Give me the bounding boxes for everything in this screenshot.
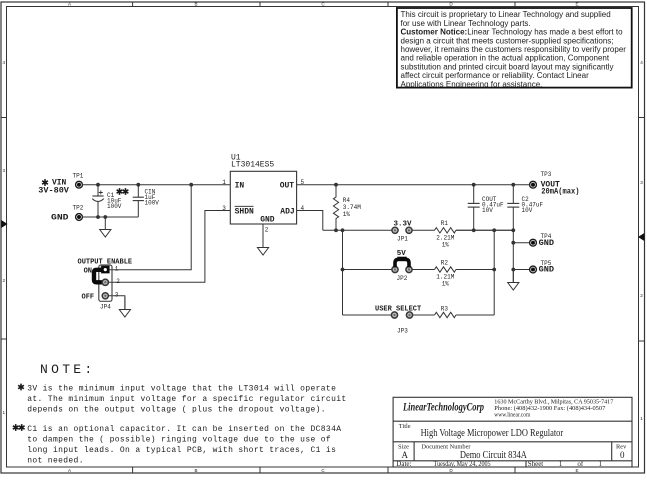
zone tick bottom BC	[259, 467, 261, 473]
svg-text:Customer Notice:Linear Technol: Customer Notice:Linear Technology has ma…	[401, 28, 624, 37]
zone tick bottom DE	[514, 467, 516, 473]
connector JP4	[99, 265, 121, 310]
svg-text:R2: R2	[441, 260, 449, 267]
svg-text:GND: GND	[539, 238, 555, 248]
wire JP2 row	[343, 269, 495, 271]
svg-text:Tuesday, May 24, 2005: Tuesday, May 24, 2005	[434, 460, 491, 468]
zone tick right 21	[639, 340, 645, 342]
svg-text:of: of	[577, 460, 584, 468]
svg-text:100V: 100V	[107, 203, 122, 210]
svg-text:R1: R1	[441, 220, 449, 227]
title block Size	[398, 443, 409, 460]
svg-text:3V is the minimum input voltag: 3V is the minimum input voltage that the…	[27, 384, 336, 393]
jumper shunt JP2	[395, 257, 409, 268]
svg-text:3.3V: 3.3V	[394, 221, 413, 229]
junction select branch	[341, 228, 345, 232]
node VIN label	[38, 178, 69, 196]
wire OUT rail	[297, 184, 530, 186]
svg-text:3V-80V: 3V-80V	[38, 185, 69, 195]
svg-text:1: 1	[640, 416, 643, 421]
zone tick right 43	[639, 117, 645, 119]
wire SHDN to JP4 pin2	[109, 211, 231, 283]
junction TP4	[511, 241, 515, 245]
junction C2 bottom	[511, 228, 515, 232]
star marker note2 double	[13, 424, 25, 431]
svg-text:TP3: TP3	[541, 171, 552, 178]
junction C1 bottom	[96, 215, 100, 219]
zone letters bottom	[68, 468, 579, 473]
svg-text:C1 is an optional capacitor. I: C1 is an optional capacitor. It can be i…	[27, 425, 341, 434]
junction C2 top	[511, 183, 515, 187]
svg-text:substitution and printed circu: substitution and printed circuit board l…	[401, 62, 614, 71]
svg-text:affect circuit performance or: affect circuit performance or reliabilit…	[401, 71, 590, 80]
svg-text:High Voltage Micropower LDO Re: High Voltage Micropower LDO Regulator	[421, 428, 564, 439]
wire JP4 pin1 to VIN rail	[110, 185, 192, 270]
svg-text:3.74M: 3.74M	[343, 204, 361, 211]
svg-text:JP1: JP1	[397, 236, 408, 243]
svg-text:TP1: TP1	[73, 173, 84, 180]
capacitor C1	[92, 185, 122, 217]
title block address	[494, 399, 614, 419]
svg-text:GND: GND	[260, 215, 275, 224]
svg-text:www.linear.com: www.linear.com	[494, 412, 530, 419]
svg-text:B: B	[194, 468, 197, 473]
svg-text:3: 3	[222, 205, 226, 212]
junction R4 bottom	[334, 228, 338, 232]
svg-text:not needed.: not needed.	[27, 456, 84, 465]
svg-text:3: 3	[3, 168, 6, 173]
resistor R1	[435, 220, 456, 248]
svg-text:OFF: OFF	[82, 293, 95, 301]
svg-text:2: 2	[116, 278, 120, 285]
test point TP5	[530, 260, 552, 273]
wire GND row right	[456, 229, 513, 231]
svg-text:JP2: JP2	[397, 275, 408, 282]
centre arrow right	[638, 233, 644, 241]
wire ADJ	[297, 211, 323, 231]
svg-text:Date:: Date:	[396, 460, 411, 468]
svg-text:and reliable operation in the: and reliable operation in the actual app…	[401, 54, 610, 63]
title block Title	[399, 423, 564, 439]
ground JP4	[119, 297, 130, 317]
wire TP5	[513, 269, 530, 271]
svg-text:IN: IN	[235, 182, 245, 191]
svg-text:LT3014ES5: LT3014ES5	[231, 161, 274, 170]
svg-text:TP2: TP2	[73, 205, 84, 212]
svg-text:ON: ON	[84, 267, 92, 275]
zone numbers right	[640, 60, 643, 421]
svg-text:GND: GND	[51, 212, 69, 222]
svg-text:R3: R3	[441, 306, 449, 313]
zone tick left 21	[1, 338, 7, 340]
svg-text:1: 1	[599, 460, 603, 468]
jumper shunt JP4	[94, 266, 109, 285]
svg-text:Applications Engineering for a: Applications Engineering for assistance.	[401, 80, 543, 89]
zone tick bottom AB	[132, 467, 134, 473]
star marker note1	[18, 384, 24, 391]
svg-text:at. The minimum input voltage: at. The minimum input voltage for a spec…	[27, 395, 346, 404]
capacitor COUT	[468, 185, 504, 231]
wire USER SELECT row	[343, 314, 495, 316]
svg-text:USER SELECT: USER SELECT	[375, 306, 421, 314]
svg-text:10V: 10V	[522, 207, 533, 214]
svg-text:C: C	[321, 468, 325, 473]
note paragraph 1	[27, 384, 346, 414]
svg-text:1: 1	[3, 410, 6, 415]
ground output	[508, 270, 519, 290]
svg-text:3: 3	[640, 180, 643, 185]
junction R4 top	[334, 183, 338, 187]
zone numbers left	[3, 60, 6, 415]
resistor R2	[435, 260, 456, 288]
svg-text:10V: 10V	[482, 207, 493, 214]
svg-text:2: 2	[640, 293, 643, 298]
junction return top	[492, 228, 496, 232]
title block Document Number	[421, 443, 527, 461]
zone tick left 43	[1, 117, 7, 119]
svg-text:Title: Title	[399, 423, 411, 430]
wire select branch vertical	[342, 230, 344, 315]
svg-text:however, it remains the custom: however, it remains the customers respon…	[401, 45, 627, 54]
svg-text:GND: GND	[539, 264, 555, 274]
svg-text:1%: 1%	[343, 211, 351, 218]
junction C1 top	[96, 183, 100, 187]
jumper JP3	[391, 312, 412, 335]
svg-text:1%: 1%	[442, 241, 450, 248]
svg-text:1: 1	[222, 179, 226, 186]
wire GND rail left	[82, 216, 138, 218]
resistor R3	[435, 306, 456, 318]
zone tick top CD	[387, 2, 389, 7]
ground input	[100, 217, 111, 237]
wire JP4 pin3 to ground	[109, 296, 125, 310]
wire VIN rail	[82, 184, 230, 186]
svg-text:B: B	[194, 2, 197, 7]
title block Date row	[396, 460, 602, 468]
svg-text:JP4: JP4	[100, 303, 111, 310]
svg-text:1: 1	[115, 266, 119, 273]
centre arrow left	[1, 220, 7, 228]
junction ON rail	[189, 183, 193, 187]
junction return JP2 row	[492, 268, 496, 272]
svg-text:design a circuit that meets cu: design a circuit that meets customer-sup…	[401, 36, 614, 45]
svg-text:A: A	[402, 450, 409, 460]
svg-text:ADJ: ADJ	[280, 208, 294, 217]
node VOUT label	[541, 179, 580, 196]
svg-text:NOTE:: NOTE:	[40, 362, 96, 377]
note paragraph 2	[27, 425, 341, 466]
svg-text:1%: 1%	[442, 280, 450, 287]
svg-text:E: E	[575, 468, 578, 473]
svg-text:This circuit is proprietary to: This circuit is proprietary to Linear Te…	[401, 10, 611, 19]
zone letters top	[68, 2, 579, 7]
star marker VIN	[42, 179, 48, 186]
svg-text:4: 4	[3, 60, 6, 65]
svg-text:E: E	[575, 2, 578, 7]
junction JP2 branch	[341, 268, 345, 272]
svg-text:20mA(max): 20mA(max)	[541, 187, 579, 197]
svg-text:long input leads. On a typical: long input leads. On a typical PCB, with…	[27, 446, 336, 455]
wire ADJ row	[323, 229, 514, 231]
junction COUT bottom	[472, 228, 476, 232]
svg-text:R4: R4	[343, 197, 351, 204]
zone tick top AB	[132, 2, 134, 7]
svg-text:Sheet: Sheet	[528, 460, 544, 468]
svg-text:1: 1	[559, 460, 563, 468]
zone tick top DE	[514, 2, 516, 7]
junction COUT top	[472, 183, 476, 187]
svg-text:4: 4	[640, 60, 643, 65]
op-amp U1 LT3014ES5	[222, 154, 304, 234]
svg-text:to dampen the ( possible) ring: to dampen the ( possible) ringing voltag…	[27, 435, 331, 444]
test point TP1	[73, 173, 84, 189]
test point TP4	[530, 233, 552, 246]
jumper JP1	[392, 221, 412, 243]
test point TP3	[530, 171, 552, 188]
jumper JP2	[392, 250, 412, 282]
svg-text:0: 0	[620, 450, 625, 460]
svg-text:A: A	[68, 468, 72, 473]
junction CIN top	[136, 183, 140, 187]
svg-text:for use with Linear Technology: for use with Linear Technology parts.	[401, 19, 531, 28]
wire feedback return vertical	[493, 230, 495, 315]
svg-text:JP3: JP3	[397, 328, 408, 335]
wire TP4	[513, 242, 530, 244]
svg-text:depends on the output voltage: depends on the output voltage ( plus the…	[27, 405, 326, 414]
svg-text:LinearTechnologyCorp: LinearTechnologyCorp	[402, 402, 484, 414]
test point TP2	[73, 205, 84, 221]
svg-text:3: 3	[115, 292, 119, 299]
junction TP5	[511, 268, 515, 272]
zone tick top BC	[259, 2, 261, 7]
wire U1 gnd stem	[262, 224, 264, 248]
customer notice box	[397, 8, 632, 88]
title block frame	[393, 397, 632, 467]
capacitor CIN	[133, 185, 160, 217]
svg-text:SHDN: SHDN	[235, 208, 254, 217]
capacitor C2	[507, 185, 543, 283]
customer notice text	[401, 10, 627, 89]
resistor R4	[333, 185, 361, 231]
svg-text:2: 2	[3, 278, 6, 283]
title block Rev	[616, 443, 627, 460]
junction gnd stem	[103, 215, 107, 219]
ground U1	[257, 235, 268, 255]
svg-text:2: 2	[265, 227, 269, 234]
svg-text:100V: 100V	[145, 199, 160, 206]
svg-text:D: D	[449, 468, 453, 473]
svg-text:OUT: OUT	[280, 182, 295, 191]
zone tick bottom CD	[387, 467, 389, 473]
star marker C1 double	[117, 188, 129, 195]
